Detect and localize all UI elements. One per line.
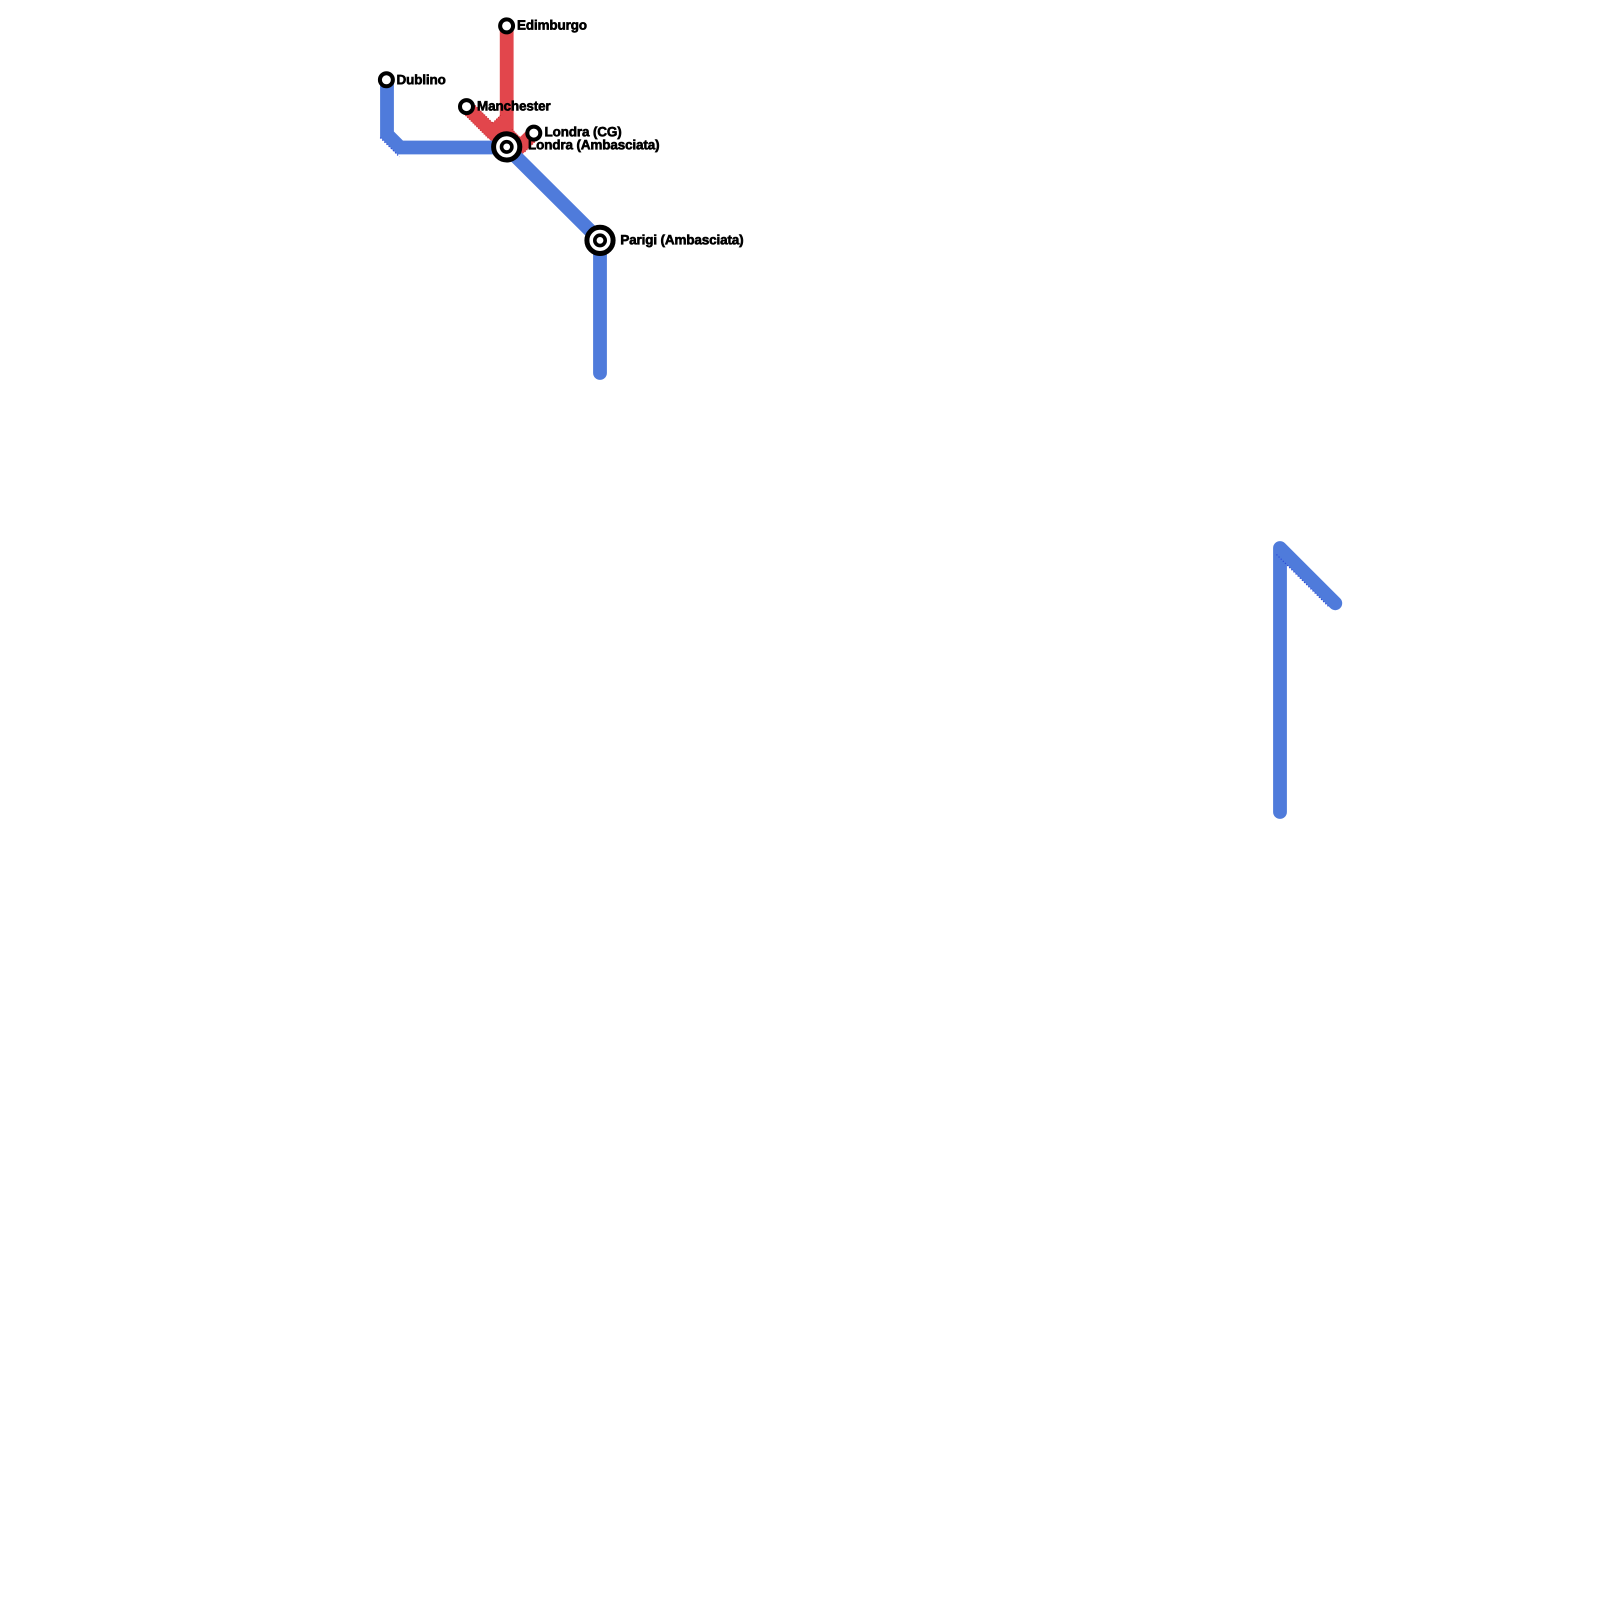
station Dublino — [380, 73, 393, 86]
wire blue artifact at Dublino corner — [380, 138, 399, 157]
wire red slot segment at hub NW — [488, 119, 506, 137]
wire red branch Londra CG-Londra — [507, 133, 534, 147]
wire red artifact edge Manchester lower — [464, 114, 489, 139]
label Londra (Ambasciata) — [529, 140, 659, 153]
wire red artifact edge CG wedge — [525, 140, 537, 152]
label Londra (CG) — [545, 127, 621, 140]
label Edimburgo — [518, 20, 587, 33]
wire red artifact edge hub NE inner — [512, 129, 520, 137]
interchange Parigi Ambasciata — [587, 227, 613, 253]
wire blue line Dublino-Londra-Parigi — [387, 80, 600, 373]
station Manchester — [460, 100, 473, 113]
wire blue right polyline — [1280, 548, 1335, 812]
wire red line Edimburgo-Londra — [500, 26, 514, 147]
station Edimburgo — [500, 19, 513, 32]
station Londra CG — [527, 127, 540, 140]
wire red branch Manchester-Londra — [467, 107, 507, 147]
wire red slot segment at hub NE to CG — [507, 134, 521, 148]
wire red artifact edge Manchester upper — [472, 102, 494, 124]
wire red artifact edge hub NE — [492, 115, 500, 123]
label Manchester — [478, 101, 551, 111]
interchange Londra Ambasciata — [494, 134, 520, 160]
wire blue artifact right polyline edge — [1277, 555, 1330, 608]
label Dublino — [397, 74, 445, 84]
label Parigi (Ambasciata) — [621, 235, 743, 248]
